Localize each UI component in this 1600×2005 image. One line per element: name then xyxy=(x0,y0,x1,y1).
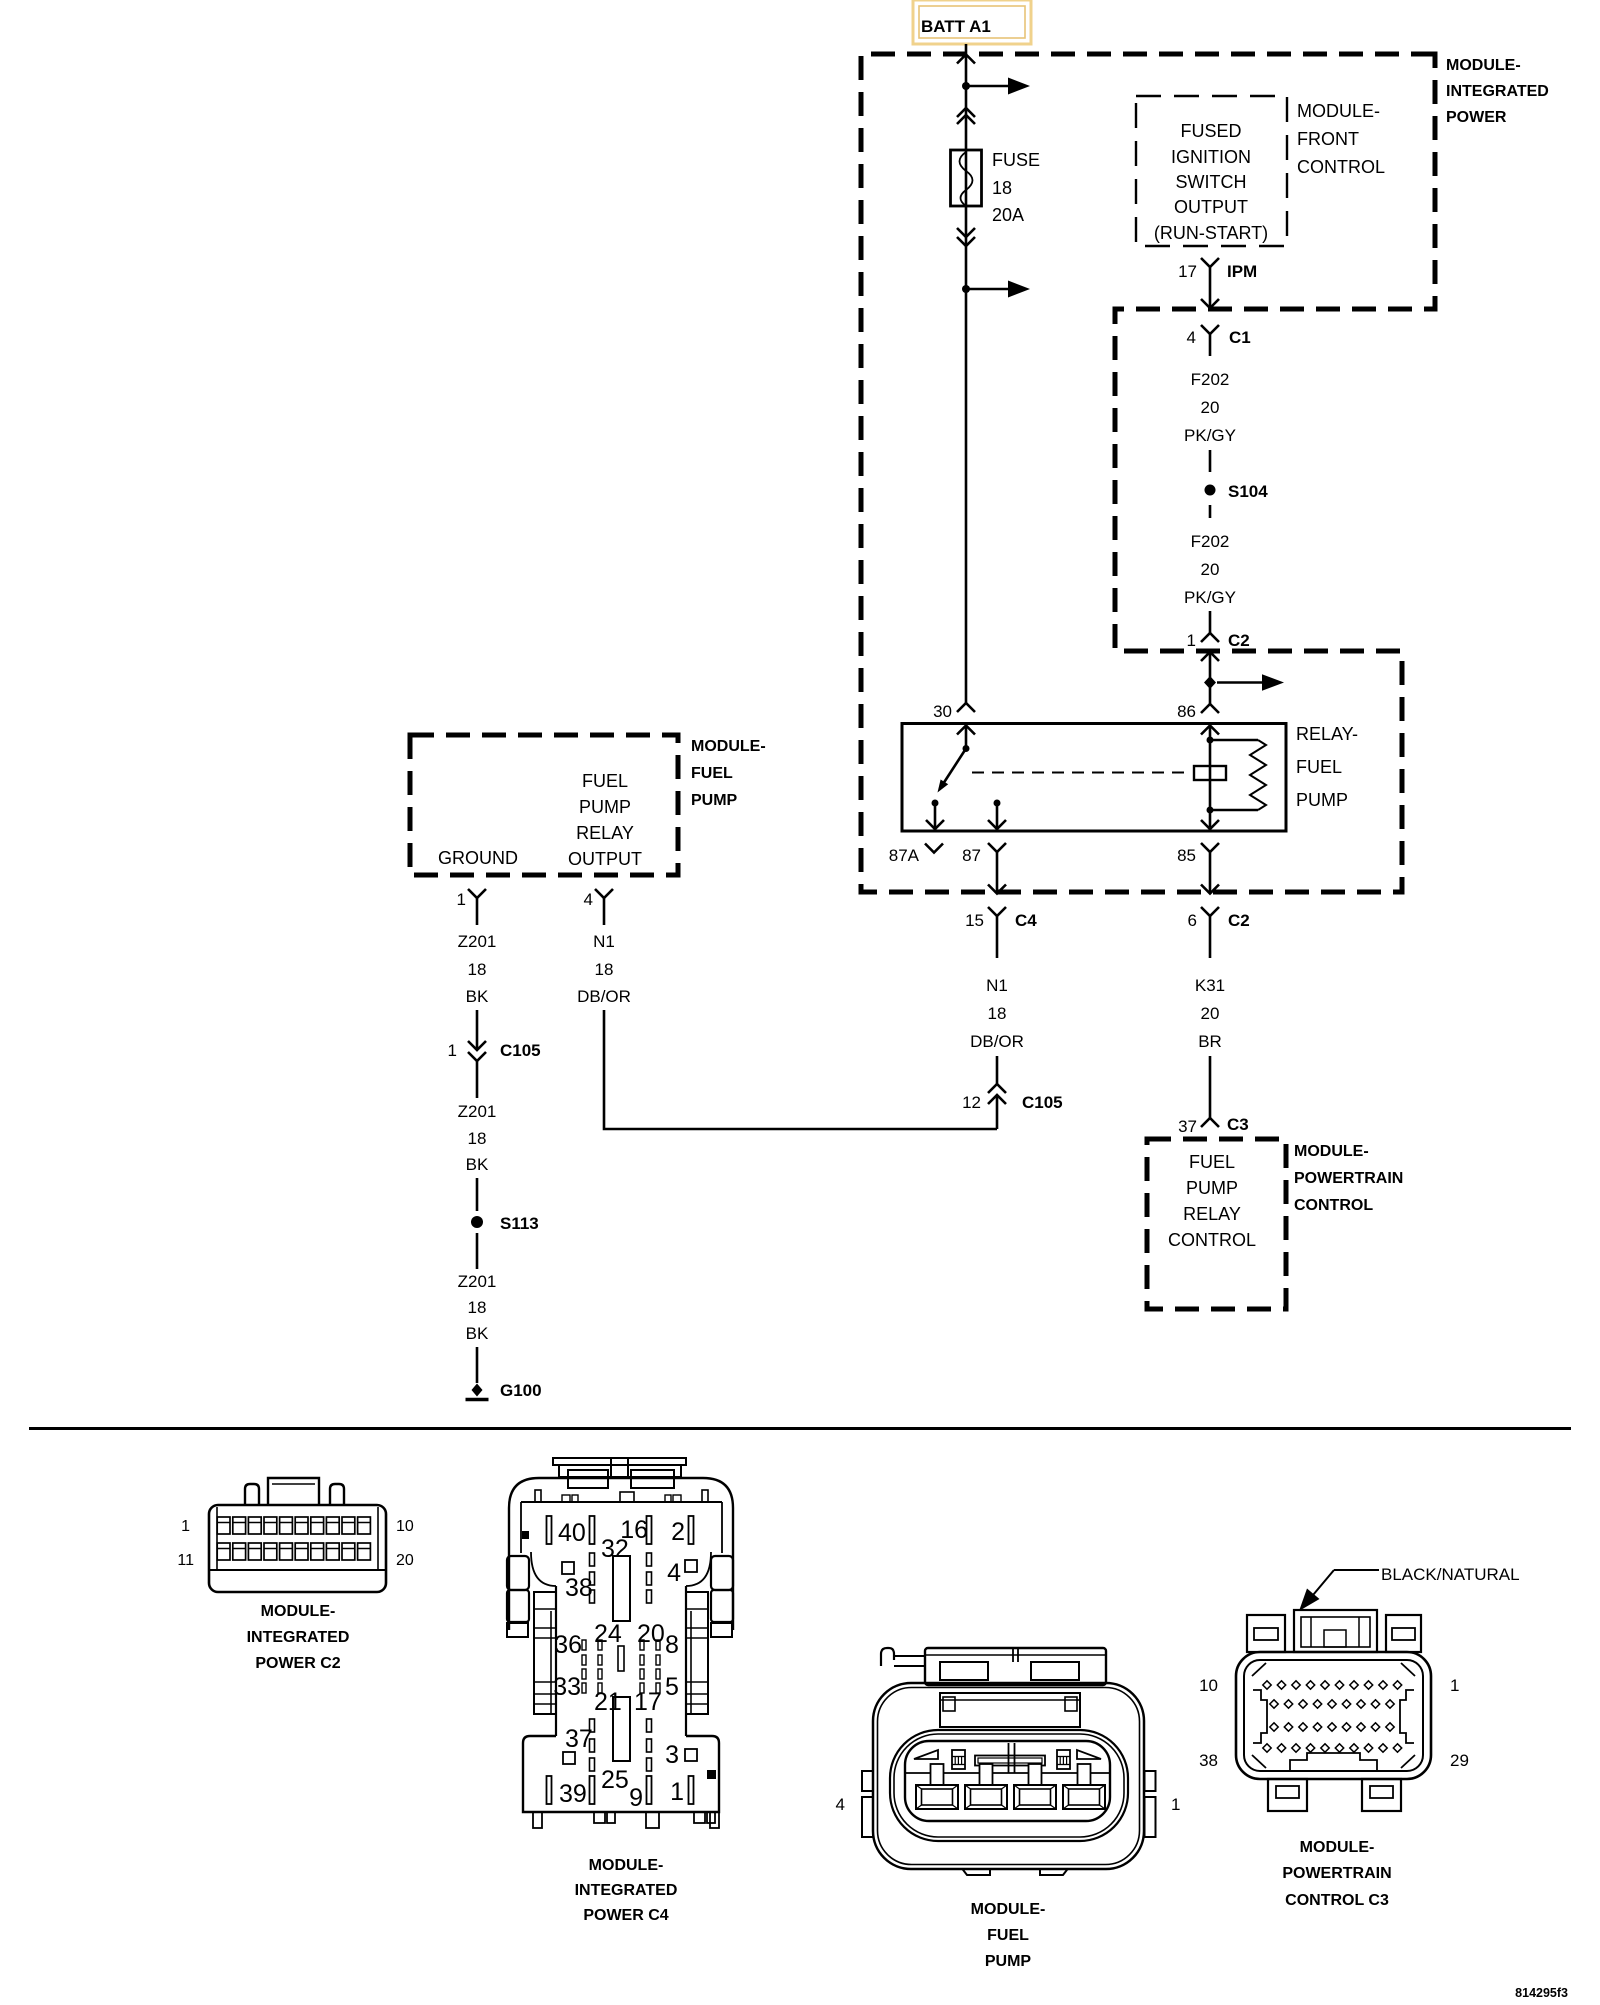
svg-text:C4: C4 xyxy=(1015,911,1037,930)
svg-text:CONTROL C3: CONTROL C3 xyxy=(1285,1892,1389,1909)
svg-text:1: 1 xyxy=(457,890,466,909)
svg-text:N1: N1 xyxy=(593,932,615,951)
svg-text:33: 33 xyxy=(553,1673,581,1701)
svg-text:1: 1 xyxy=(1187,631,1196,650)
svg-text:MODULE-: MODULE- xyxy=(1294,1143,1369,1160)
svg-text:6: 6 xyxy=(1188,911,1197,930)
svg-text:MODULE-: MODULE- xyxy=(691,738,766,755)
svg-text:BK: BK xyxy=(466,987,489,1006)
svg-text:15: 15 xyxy=(965,911,984,930)
svg-text:PUMP: PUMP xyxy=(579,797,631,817)
svg-text:10: 10 xyxy=(396,1518,414,1535)
svg-text:87A: 87A xyxy=(889,846,920,865)
svg-text:18: 18 xyxy=(595,960,614,979)
svg-text:POWER: POWER xyxy=(1446,109,1507,126)
svg-text:F202: F202 xyxy=(1191,532,1230,551)
svg-text:87: 87 xyxy=(962,846,981,865)
svg-text:40: 40 xyxy=(558,1519,586,1547)
svg-text:20: 20 xyxy=(1201,398,1220,417)
svg-text:12: 12 xyxy=(962,1093,981,1112)
svg-text:1: 1 xyxy=(670,1778,684,1806)
svg-text:25: 25 xyxy=(601,1766,629,1794)
svg-text:C105: C105 xyxy=(500,1041,541,1060)
svg-text:1: 1 xyxy=(181,1518,190,1535)
svg-text:32: 32 xyxy=(601,1535,629,1563)
svg-text:MODULE-: MODULE- xyxy=(1297,101,1380,121)
svg-text:CONTROL: CONTROL xyxy=(1168,1230,1256,1250)
svg-text:C3: C3 xyxy=(1227,1115,1249,1134)
svg-text:8: 8 xyxy=(665,1631,679,1659)
svg-text:18: 18 xyxy=(468,1298,487,1317)
svg-text:2: 2 xyxy=(671,1518,685,1546)
svg-text:20: 20 xyxy=(396,1552,414,1569)
svg-text:PUMP: PUMP xyxy=(985,1953,1032,1970)
svg-text:BK: BK xyxy=(466,1155,489,1174)
svg-text:INTEGRATED: INTEGRATED xyxy=(575,1882,678,1899)
svg-text:37: 37 xyxy=(1178,1117,1197,1136)
svg-text:4: 4 xyxy=(584,890,593,909)
svg-text:FUSE: FUSE xyxy=(992,150,1040,170)
svg-text:INTEGRATED: INTEGRATED xyxy=(1446,83,1549,100)
svg-text:RELAY: RELAY xyxy=(1183,1204,1241,1224)
svg-text:POWERTRAIN: POWERTRAIN xyxy=(1282,1865,1391,1882)
svg-text:MODULE-: MODULE- xyxy=(1446,57,1521,74)
svg-text:FUEL: FUEL xyxy=(1296,757,1342,777)
svg-text:4: 4 xyxy=(667,1559,681,1587)
svg-text:10: 10 xyxy=(1199,1676,1218,1695)
svg-text:OUTPUT: OUTPUT xyxy=(1174,197,1248,217)
svg-text:20A: 20A xyxy=(992,205,1024,225)
svg-text:POWERTRAIN: POWERTRAIN xyxy=(1294,1170,1403,1187)
svg-text:DB/OR: DB/OR xyxy=(970,1032,1024,1051)
svg-text:IPM: IPM xyxy=(1227,262,1257,281)
svg-text:38: 38 xyxy=(1199,1751,1218,1770)
svg-text:CONTROL: CONTROL xyxy=(1294,1197,1373,1214)
svg-text:CONTROL: CONTROL xyxy=(1297,157,1385,177)
svg-text:FUSED: FUSED xyxy=(1180,121,1241,141)
svg-text:18: 18 xyxy=(468,1129,487,1148)
svg-text:RELAY-: RELAY- xyxy=(1296,724,1358,744)
svg-text:DB/OR: DB/OR xyxy=(577,987,631,1006)
svg-text:Z201: Z201 xyxy=(458,932,497,951)
svg-text:OUTPUT: OUTPUT xyxy=(568,849,642,869)
svg-text:INTEGRATED: INTEGRATED xyxy=(247,1629,350,1646)
svg-text:5: 5 xyxy=(665,1673,679,1701)
svg-text:PK/GY: PK/GY xyxy=(1184,426,1236,445)
svg-text:MODULE-: MODULE- xyxy=(261,1603,336,1620)
svg-text:FUEL: FUEL xyxy=(582,771,628,791)
svg-text:39: 39 xyxy=(559,1780,587,1808)
svg-text:PUMP: PUMP xyxy=(1186,1178,1238,1198)
svg-text:C2: C2 xyxy=(1228,631,1250,650)
svg-text:17: 17 xyxy=(634,1688,662,1716)
svg-text:BR: BR xyxy=(1198,1032,1222,1051)
svg-text:38: 38 xyxy=(565,1574,593,1602)
svg-text:814295f3: 814295f3 xyxy=(1515,1986,1568,2000)
svg-text:C2: C2 xyxy=(1228,911,1250,930)
svg-text:30: 30 xyxy=(933,702,952,721)
svg-text:PK/GY: PK/GY xyxy=(1184,588,1236,607)
svg-text:MODULE-: MODULE- xyxy=(971,1901,1046,1918)
svg-text:1: 1 xyxy=(1450,1676,1459,1695)
svg-text:N1: N1 xyxy=(986,976,1008,995)
svg-text:18: 18 xyxy=(468,960,487,979)
svg-text:1: 1 xyxy=(1171,1795,1180,1814)
svg-text:G100: G100 xyxy=(500,1381,542,1400)
svg-text:20: 20 xyxy=(1201,1004,1220,1023)
svg-text:POWER C4: POWER C4 xyxy=(583,1907,668,1924)
svg-text:MODULE-: MODULE- xyxy=(589,1857,664,1874)
svg-text:21: 21 xyxy=(594,1688,622,1716)
svg-text:RELAY: RELAY xyxy=(576,823,634,843)
svg-text:FRONT: FRONT xyxy=(1297,129,1359,149)
svg-text:C105: C105 xyxy=(1022,1093,1063,1112)
svg-text:PUMP: PUMP xyxy=(691,792,738,809)
svg-text:1: 1 xyxy=(448,1041,457,1060)
svg-text:(RUN-START): (RUN-START) xyxy=(1154,223,1268,243)
svg-text:Z201: Z201 xyxy=(458,1102,497,1121)
svg-text:4: 4 xyxy=(836,1795,845,1814)
svg-text:C1: C1 xyxy=(1229,328,1251,347)
svg-text:37: 37 xyxy=(565,1725,593,1753)
svg-text:24: 24 xyxy=(594,1620,622,1648)
svg-text:IGNITION: IGNITION xyxy=(1171,147,1251,167)
svg-text:F202: F202 xyxy=(1191,370,1230,389)
svg-text:85: 85 xyxy=(1177,846,1196,865)
svg-text:SWITCH: SWITCH xyxy=(1176,172,1247,192)
svg-text:4: 4 xyxy=(1187,328,1196,347)
svg-text:S104: S104 xyxy=(1228,482,1268,501)
svg-text:11: 11 xyxy=(177,1552,194,1569)
svg-text:GROUND: GROUND xyxy=(438,848,518,868)
svg-text:9: 9 xyxy=(629,1784,643,1812)
svg-text:BATT A1: BATT A1 xyxy=(921,17,991,36)
svg-text:BLACK/NATURAL: BLACK/NATURAL xyxy=(1381,1565,1520,1584)
svg-text:18: 18 xyxy=(988,1004,1007,1023)
svg-text:POWER C2: POWER C2 xyxy=(255,1655,340,1672)
svg-text:MODULE-: MODULE- xyxy=(1300,1839,1375,1856)
svg-text:29: 29 xyxy=(1450,1751,1469,1770)
svg-text:18: 18 xyxy=(992,178,1012,198)
svg-text:FUEL: FUEL xyxy=(987,1927,1029,1944)
svg-text:36: 36 xyxy=(554,1631,582,1659)
svg-text:PUMP: PUMP xyxy=(1296,790,1348,810)
svg-text:20: 20 xyxy=(637,1620,665,1648)
svg-text:Z201: Z201 xyxy=(458,1272,497,1291)
svg-text:86: 86 xyxy=(1177,702,1196,721)
svg-text:FUEL: FUEL xyxy=(1189,1152,1235,1172)
svg-text:K31: K31 xyxy=(1195,976,1225,995)
svg-text:FUEL: FUEL xyxy=(691,765,733,782)
svg-text:S113: S113 xyxy=(500,1214,539,1233)
svg-text:3: 3 xyxy=(665,1741,679,1769)
svg-text:BK: BK xyxy=(466,1324,489,1343)
svg-text:20: 20 xyxy=(1201,560,1220,579)
svg-text:17: 17 xyxy=(1178,262,1197,281)
